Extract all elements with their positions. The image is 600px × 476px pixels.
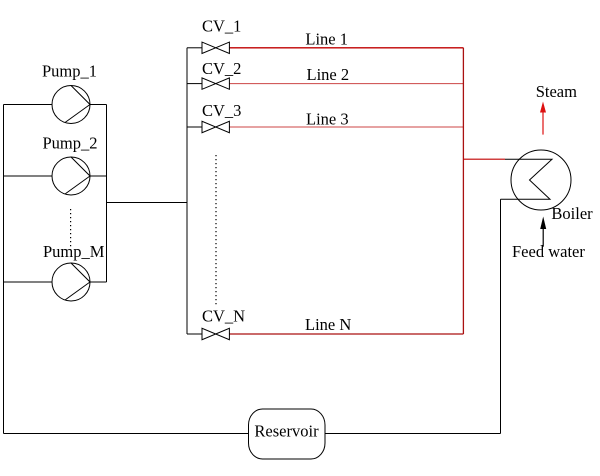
svg-text:CV_2: CV_2 (202, 59, 241, 78)
svg-text:Reservoir: Reservoir (254, 422, 319, 441)
svg-text:Feed water: Feed water (512, 242, 585, 261)
svg-text:Pump_M: Pump_M (43, 242, 105, 261)
svg-text:CV_3: CV_3 (202, 101, 241, 120)
svg-text:Line N: Line N (305, 315, 351, 334)
svg-text:Pump_1: Pump_1 (42, 62, 97, 81)
svg-text:Steam: Steam (536, 82, 577, 101)
svg-text:Line 3: Line 3 (306, 109, 349, 128)
svg-text:CV_1: CV_1 (202, 16, 241, 35)
svg-text:CV_N: CV_N (202, 306, 245, 325)
svg-text:Line 1: Line 1 (305, 29, 348, 48)
svg-text:Pump_2: Pump_2 (43, 134, 98, 153)
svg-text:Boiler: Boiler (551, 204, 593, 223)
svg-text:Line 2: Line 2 (307, 65, 350, 84)
